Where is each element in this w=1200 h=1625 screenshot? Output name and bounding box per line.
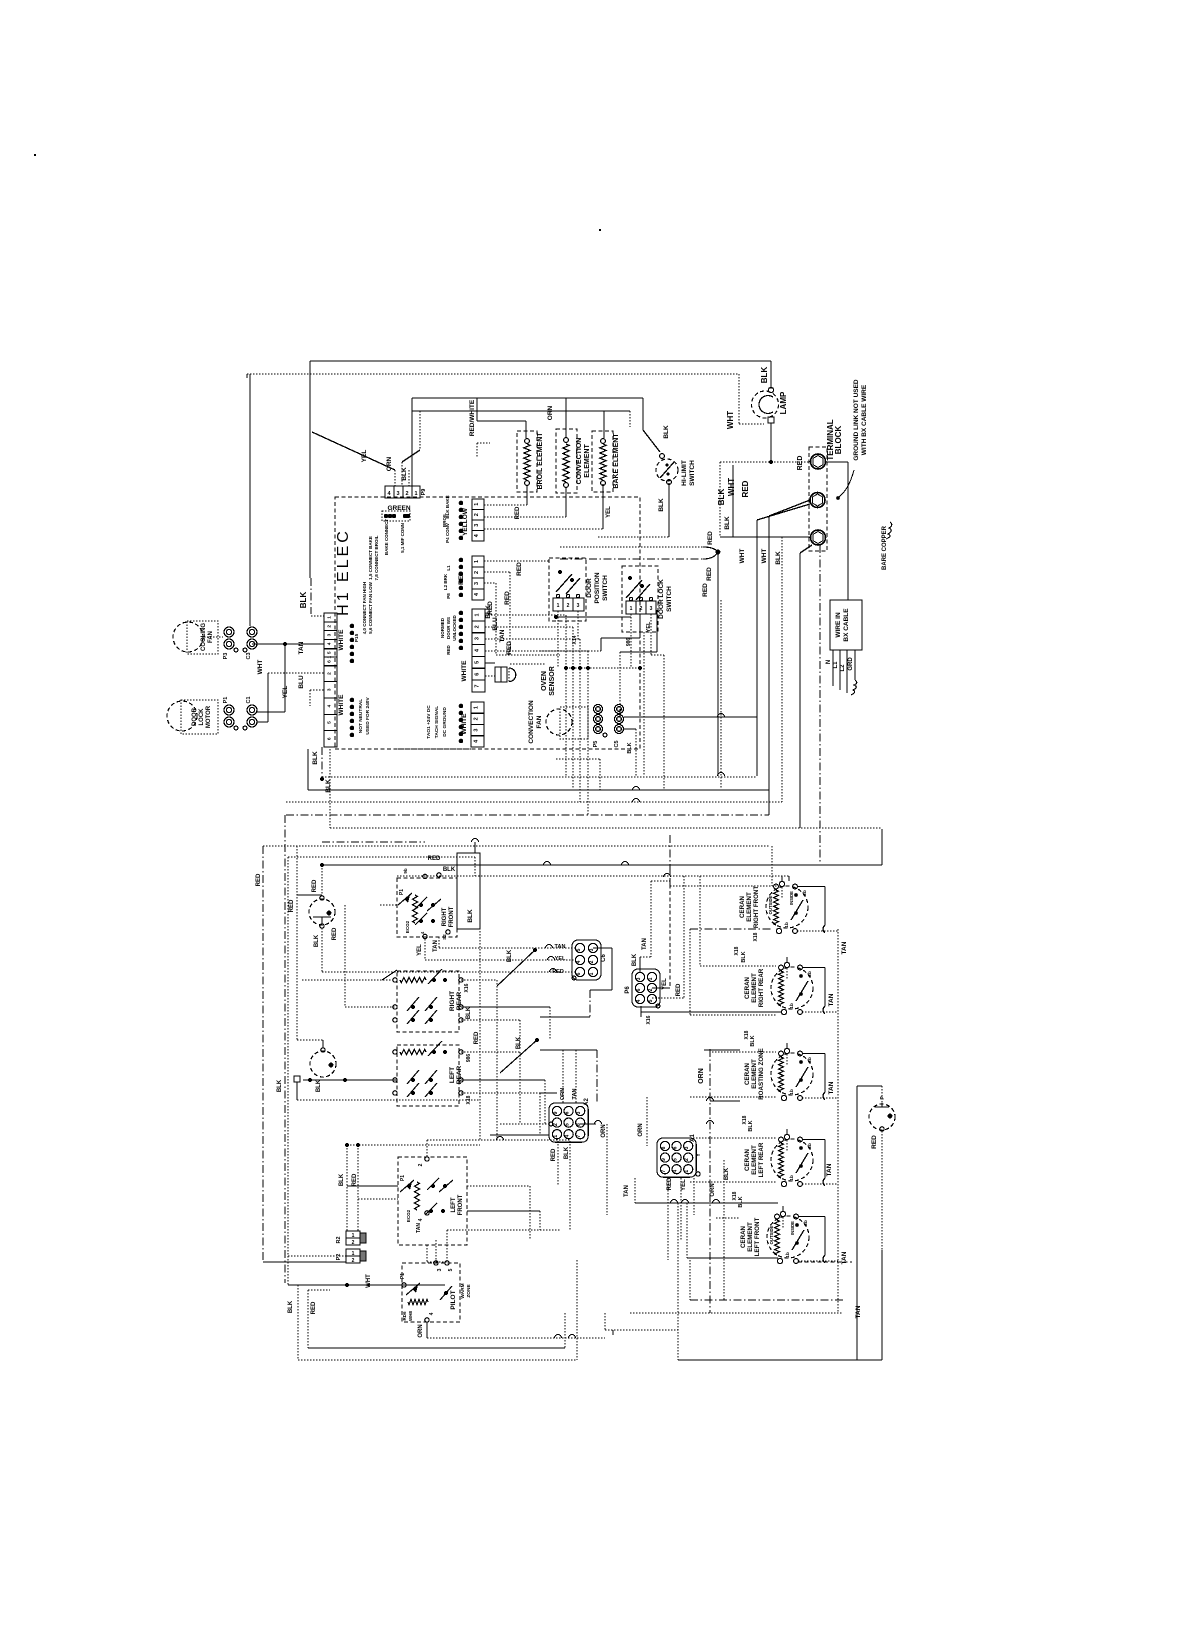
- svg-text:1: 1: [589, 972, 595, 975]
- svg-text:NORMED: NORMED: [440, 617, 445, 638]
- svg-text:3: 3: [437, 1268, 443, 1271]
- svg-text:L2 BRK: L2 BRK: [443, 573, 448, 590]
- svg-text:SENSOR: SENSOR: [549, 666, 556, 696]
- svg-text:BLK: BLK: [760, 367, 769, 384]
- svg-text:ORN: ORN: [601, 1124, 607, 1137]
- svg-text:TAN: TAN: [499, 629, 506, 642]
- wire WHT riser: [739, 520, 757, 776]
- svg-text:DC GROUND: DC GROUND: [442, 707, 448, 737]
- wire BLK riser: [775, 537, 782, 802]
- A1 top wire: [638, 1097, 702, 1176]
- svg-text:3: 3: [474, 582, 480, 585]
- cooling fan motor: [173, 621, 223, 654]
- svg-text:RED: RED: [552, 969, 564, 975]
- connector A1: [657, 1134, 696, 1178]
- svg-text:4: 4: [429, 1312, 435, 1315]
- svg-text:RED: RED: [741, 480, 750, 497]
- wire RED/WHITE element rail: [412, 398, 643, 436]
- svg-text:2: 2: [475, 625, 481, 628]
- wire right edge bus: [856, 1086, 858, 1360]
- svg-text:5: 5: [648, 999, 654, 1002]
- svg-text:6: 6: [327, 737, 333, 740]
- label TAN bottom: [855, 1305, 862, 1318]
- svg-text:WHT: WHT: [366, 1274, 372, 1288]
- svg-text:7: 7: [576, 1135, 582, 1138]
- svg-text:R2: R2: [336, 1236, 342, 1243]
- svg-text:RED: RED: [352, 1173, 358, 1186]
- convection fan: [528, 700, 588, 744]
- infinite switch RIGHT REAR: [393, 969, 463, 1032]
- svg-text:INSIDE: INSIDE: [789, 891, 794, 905]
- svg-text:RED: RED: [428, 856, 441, 862]
- svg-text:TAN: TAN: [828, 993, 835, 1006]
- svg-text:N: N: [826, 660, 832, 664]
- wire rail 3: [286, 799, 782, 802]
- svg-text:3: 3: [577, 603, 580, 609]
- door lock motor: [167, 700, 218, 734]
- wire right front feed: [771, 846, 773, 886]
- svg-text:BLK: BLK: [443, 867, 456, 873]
- svg-text:5: 5: [448, 1268, 454, 1271]
- svg-text:1b: 1b: [784, 922, 790, 928]
- svg-text:5,6 CONNECT FAN LOW: 5,6 CONNECT FAN LOW: [368, 581, 373, 634]
- wire RED bus b: [560, 559, 709, 597]
- svg-text:S2: S2: [442, 934, 447, 940]
- svg-text:P1: P1: [400, 1175, 406, 1181]
- svg-text:1: 1: [630, 606, 633, 612]
- svg-text:FAN: FAN: [536, 715, 543, 728]
- svg-text:YEL: YEL: [282, 686, 289, 699]
- broil element: [515, 431, 544, 519]
- svg-text:BLK: BLK: [339, 1173, 345, 1186]
- svg-text:TAN: TAN: [298, 641, 305, 654]
- wire LR H1: [461, 1080, 545, 1124]
- svg-text:NOT NEUTRAL: NOT NEUTRAL: [358, 699, 364, 733]
- wire left bus: [284, 815, 286, 1283]
- wire BLK pilot B: [277, 1076, 397, 1092]
- svg-text:BLK: BLK: [312, 751, 319, 765]
- svg-text:1: 1: [557, 603, 560, 609]
- svg-text:ORN: ORN: [710, 1183, 716, 1196]
- svg-text:7: 7: [661, 1170, 667, 1173]
- wire BLK to connector P3: [299, 361, 324, 616]
- svg-text:4,0 CONNECT FAN HIGH: 4,0 CONNECT FAN HIGH: [362, 582, 367, 635]
- svg-text:TAN: TAN: [828, 1081, 835, 1094]
- svg-text:ZONE: ZONE: [466, 1284, 472, 1298]
- wire rail 9 main: [322, 862, 882, 865]
- svg-text:P4 CONV: P4 CONV: [445, 523, 450, 543]
- svg-text:P3: P3: [223, 653, 229, 660]
- wire E1 bottom: [690, 929, 772, 1015]
- pilot lamp B: [297, 846, 336, 1077]
- svg-text:2: 2: [648, 988, 654, 991]
- wire TAN A1: [624, 1178, 778, 1203]
- heating element left front: [740, 1206, 838, 1264]
- wire bottom rail B: [298, 1260, 577, 1360]
- svg-text:INSIDE: INSIDE: [790, 1221, 795, 1235]
- heating element right rear: [744, 957, 838, 1015]
- svg-text:P8: P8: [446, 593, 451, 599]
- door lock switch: [622, 566, 673, 632]
- svg-text:ECO2: ECO2: [405, 920, 410, 933]
- svg-text:RED: RED: [667, 1177, 673, 1190]
- svg-text:4: 4: [636, 999, 642, 1002]
- wire YEL green-1: [312, 432, 395, 486]
- svg-text:3: 3: [684, 1146, 690, 1149]
- wire TAN RF to C6: [433, 937, 575, 952]
- wire BLK w1: [485, 605, 566, 776]
- wire BLK down-left: [288, 1285, 298, 1360]
- svg-text:DOOR: DOOR: [192, 707, 198, 726]
- svg-text:ORN: ORN: [638, 1123, 644, 1136]
- svg-text:6: 6: [565, 1111, 571, 1114]
- svg-text:REAR: REAR: [456, 1065, 463, 1084]
- svg-text:C1: C1: [246, 696, 252, 703]
- svg-text:RIGHT REAR: RIGHT REAR: [758, 968, 765, 1007]
- svg-text:SWITCH: SWITCH: [666, 586, 673, 612]
- svg-text:RED: RED: [516, 562, 523, 576]
- svg-text:BLK: BLK: [632, 953, 638, 966]
- svg-text:BLK: BLK: [277, 1079, 283, 1092]
- svg-text:L2: L2: [840, 664, 846, 672]
- svg-text:3: 3: [327, 633, 333, 636]
- svg-text:5: 5: [475, 661, 481, 664]
- svg-text:BLK: BLK: [738, 1196, 744, 1207]
- svg-text:RED: RED: [707, 531, 714, 545]
- wire rail 1: [322, 776, 757, 778]
- svg-text:P2: P2: [336, 1254, 342, 1261]
- wire E4 out: [690, 1163, 833, 1182]
- svg-text:WHT: WHT: [726, 411, 735, 429]
- wire WHT rail to lamp: [247, 374, 764, 429]
- svg-text:1: 1: [553, 1135, 559, 1138]
- A2 left wires: [490, 1093, 557, 1135]
- svg-text:RED: RED: [706, 567, 713, 581]
- wire RED to C6: [322, 927, 575, 972]
- svg-text:TAN: TAN: [841, 1251, 848, 1264]
- infinite switch LEFT FRONT: [398, 1157, 467, 1245]
- svg-text:BLU: BLU: [492, 617, 499, 631]
- wire E2 top: [700, 876, 776, 966]
- A2 right wire: [580, 1121, 607, 1215]
- wire TAN w3: [485, 629, 580, 802]
- svg-text:FRONT: FRONT: [458, 1194, 464, 1215]
- wire riser to board: [411, 398, 413, 497]
- svg-text:RED: RED: [506, 641, 513, 655]
- ground link note: [836, 379, 868, 500]
- svg-text:RIGHT: RIGHT: [449, 991, 456, 1011]
- svg-text:RED: RED: [504, 591, 511, 605]
- svg-text:BLK: BLK: [516, 1036, 522, 1049]
- svg-text:6: 6: [327, 660, 333, 663]
- svg-text:BLK: BLK: [658, 498, 665, 512]
- wire BLK diagonal 2: [500, 1036, 539, 1073]
- wire red/white stub: [477, 443, 490, 457]
- svg-text:YEL: YEL: [361, 450, 368, 463]
- svg-text:2: 2: [474, 513, 480, 516]
- svg-text:A2: A2: [584, 1098, 590, 1106]
- svg-text:3: 3: [589, 948, 595, 951]
- svg-text:3: 3: [474, 729, 480, 732]
- svg-text:BLK: BLK: [741, 951, 747, 962]
- svg-text:ROASTING ZONE: ROASTING ZONE: [758, 1048, 765, 1100]
- wire BLK hi-limit down: [598, 483, 669, 537]
- svg-text:1: 1: [352, 1233, 355, 1239]
- wire E3 out: [690, 1096, 776, 1098]
- svg-text:HI-LIMIT: HI-LIMIT: [681, 460, 688, 486]
- svg-text:TAN: TAN: [841, 941, 848, 954]
- connector P3/C3 rings: [223, 627, 257, 660]
- wire door lock riser: [572, 632, 644, 776]
- svg-text:1: 1: [414, 491, 417, 497]
- svg-text:RIGHT: RIGHT: [442, 907, 448, 926]
- svg-text:CERAN: CERAN: [744, 1062, 751, 1085]
- wire YEL A1 down: [681, 1178, 687, 1240]
- svg-text:P5: P5: [593, 741, 599, 748]
- P3 pads: [350, 581, 373, 663]
- junction row: [564, 666, 642, 670]
- wires horizontal mid: [704, 1050, 740, 1101]
- svg-text:2: 2: [352, 1258, 355, 1264]
- wire ORN pilot bottom: [418, 1322, 605, 1338]
- svg-text:BLK: BLK: [316, 1079, 322, 1092]
- svg-text:ORN: ORN: [547, 405, 554, 420]
- bake element: [592, 431, 620, 518]
- connector P5/C5 rings: [593, 705, 633, 754]
- wire TAN C3 to P3conn: [252, 641, 324, 654]
- svg-text:8: 8: [661, 1146, 667, 1149]
- svg-text:BLK: BLK: [750, 1035, 756, 1046]
- svg-text:2: 2: [589, 960, 595, 963]
- svg-text:2b: 2b: [807, 1143, 813, 1149]
- svg-text:986: 986: [466, 1054, 472, 1063]
- wire X16: [461, 980, 497, 1140]
- svg-text:P1: P1: [400, 1273, 406, 1279]
- svg-text:4: 4: [327, 642, 333, 645]
- connector P6: [625, 969, 660, 1007]
- svg-text:LEFT: LEFT: [451, 1197, 457, 1212]
- svg-text:BROIL ELEMENT: BROIL ELEMENT: [537, 432, 544, 490]
- svg-text:X18: X18: [753, 932, 759, 941]
- svg-text:TACH SIGNAL: TACH SIGNAL: [434, 706, 440, 738]
- svg-text:H1 ELEC: H1 ELEC: [335, 528, 352, 616]
- wire stub: [246, 374, 248, 378]
- svg-text:YEL: YEL: [606, 506, 612, 518]
- svg-text:BLK: BLK: [724, 1167, 730, 1180]
- svg-text:3: 3: [396, 491, 399, 497]
- svg-text:1: 1: [327, 656, 333, 659]
- wire door lock down: [540, 610, 664, 790]
- oven sensor: [485, 663, 556, 696]
- svg-text:X18: X18: [734, 946, 740, 955]
- connector P2 WHITE 6: [324, 649, 345, 747]
- wire BLK riser mid: [724, 465, 733, 537]
- svg-text:BLU: BLU: [298, 675, 305, 689]
- red connector pads: [443, 558, 463, 599]
- svg-text:CERAN: CERAN: [739, 895, 746, 918]
- svg-text:4: 4: [327, 705, 333, 708]
- connector GREEN: [385, 486, 420, 512]
- svg-text:2b: 2b: [802, 890, 808, 896]
- svg-text:1: 1: [475, 613, 481, 616]
- wire to hi-limit: [643, 398, 660, 452]
- junction node: [703, 547, 720, 559]
- connector P9 pads: [368, 489, 427, 581]
- wire bake to yellow connector: [484, 484, 603, 529]
- svg-text:CONVECTION: CONVECTION: [528, 700, 535, 744]
- svg-text:RED: RED: [332, 927, 338, 940]
- svg-text:RED/WHITE: RED/WHITE: [469, 399, 476, 436]
- svg-text:GROUND LINK NOT USED: GROUND LINK NOT USED: [853, 379, 860, 461]
- wire X18: [461, 1093, 540, 1135]
- svg-text:WHITE: WHITE: [338, 629, 345, 651]
- terminal bolt 1: [797, 454, 826, 470]
- svg-text:2b: 2b: [803, 1220, 809, 1226]
- svg-text:L1: L1: [833, 661, 839, 669]
- svg-text:YEL: YEL: [417, 944, 423, 956]
- wire E5 bottom: [687, 1251, 852, 1264]
- svg-text:CERAN: CERAN: [744, 1148, 751, 1171]
- C6 labels: [552, 944, 576, 980]
- svg-text:BLK: BLK: [564, 1146, 570, 1159]
- svg-text:2: 2: [553, 1123, 559, 1126]
- infinite switch LEFT REAR: [393, 1041, 463, 1106]
- wire RED w4: [485, 641, 588, 815]
- svg-text:2: 2: [405, 491, 408, 497]
- svg-text:BLK: BLK: [748, 1120, 754, 1131]
- wire pilot B down: [297, 1082, 480, 1100]
- svg-text:BLK: BLK: [724, 516, 731, 530]
- wire bottom right box: [678, 1203, 882, 1360]
- svg-text:OVEN: OVEN: [541, 671, 548, 691]
- svg-text:5,1 MIF CONN: 5,1 MIF CONN: [400, 523, 405, 553]
- svg-text:P9: P9: [421, 489, 427, 496]
- svg-text:2: 2: [418, 1163, 424, 1166]
- svg-text:YEL: YEL: [681, 1179, 687, 1191]
- svg-text:RED: RED: [256, 873, 262, 886]
- svg-text:5: 5: [565, 1123, 571, 1126]
- svg-text:1b: 1b: [789, 1089, 795, 1095]
- wire 986: [461, 1052, 520, 1124]
- wire ORN green-2: [386, 411, 420, 486]
- svg-text:1b: 1b: [789, 1175, 795, 1181]
- connector P1/C1 rings: [223, 696, 257, 730]
- wire LF out2: [467, 1211, 540, 1230]
- svg-text:C3: C3: [246, 652, 252, 659]
- svg-text:1: 1: [474, 706, 480, 709]
- svg-text:ORN: ORN: [418, 1324, 424, 1337]
- wire bottom rail A: [308, 1313, 565, 1348]
- svg-text:3: 3: [636, 977, 642, 980]
- wire rail 1300: [690, 1260, 843, 1300]
- svg-text:P1: P1: [399, 889, 405, 895]
- svg-text:TAN: TAN: [555, 944, 566, 950]
- svg-text:C6: C6: [601, 954, 607, 962]
- wire C6 loop: [540, 948, 612, 1017]
- svg-text:2b: 2b: [807, 971, 813, 977]
- terminal bolt 3: [811, 530, 826, 545]
- wire bake top: [604, 411, 630, 438]
- wire E3 top: [712, 1030, 776, 1052]
- svg-text:ELEMENT: ELEMENT: [747, 1222, 754, 1252]
- pilot lamp A: [289, 863, 335, 947]
- svg-text:BLK: BLK: [401, 467, 408, 481]
- wire rail 2: [308, 749, 769, 790]
- svg-text:BAKE ELEMENT: BAKE ELEMENT: [613, 433, 620, 489]
- heating element roasting zone: [744, 1043, 838, 1101]
- svg-text:BLK: BLK: [466, 1006, 472, 1019]
- wire RED to door position switch: [484, 561, 549, 576]
- connector P3 WHITE 6: [324, 613, 345, 666]
- svg-text:BLK: BLK: [775, 551, 782, 565]
- connector YELLOW: [462, 499, 484, 541]
- svg-text:4: 4: [673, 1170, 679, 1173]
- wire chain right of elements: [837, 929, 839, 1313]
- svg-text:BLK: BLK: [467, 909, 474, 923]
- wire BLU w2: [485, 617, 573, 789]
- svg-text:1,5 CONNECT BAKE: 1,5 CONNECT BAKE: [368, 536, 373, 580]
- wire RR out: [461, 1020, 520, 1050]
- wire rail 4: [286, 814, 769, 816]
- wire E1 feed: [670, 835, 777, 886]
- svg-text:POSITION: POSITION: [594, 572, 601, 603]
- svg-text:P1: P1: [223, 697, 229, 704]
- wire E2 out: [690, 1015, 835, 1094]
- wire rail 6: [881, 829, 883, 865]
- svg-text:ORN: ORN: [698, 1068, 705, 1084]
- svg-text:TAN: TAN: [624, 1185, 630, 1197]
- svg-text:BLOCK: BLOCK: [834, 426, 843, 455]
- svg-text:RED: RED: [289, 899, 295, 912]
- connector WHITE 7: [461, 609, 485, 692]
- wire rail 10: [397, 857, 789, 881]
- svg-text:2: 2: [640, 606, 643, 612]
- svg-text:RED: RED: [551, 1148, 557, 1161]
- svg-text:2: 2: [474, 571, 480, 574]
- wire WHT junction: [288, 1274, 445, 1288]
- svg-text:ECO2: ECO2: [406, 1209, 411, 1222]
- wire WHT RED from terminal block: [727, 478, 810, 520]
- wire RED riser b: [484, 583, 496, 655]
- svg-text:WHITE: WHITE: [461, 713, 468, 735]
- svg-text:6: 6: [475, 673, 481, 676]
- wire E1 out TAN: [828, 941, 848, 1006]
- svg-text:986: 986: [626, 638, 632, 647]
- svg-text:RED: RED: [676, 983, 682, 996]
- svg-text:DOOR WS: DOOR WS: [446, 617, 451, 639]
- svg-text:LAMP: LAMP: [779, 391, 788, 414]
- wire convection to yellow connector: [484, 487, 566, 517]
- wire ORN element rail: [412, 405, 630, 420]
- svg-text:WHT: WHT: [257, 660, 264, 675]
- svg-text:YEL: YEL: [662, 978, 668, 990]
- svg-text:5: 5: [576, 948, 582, 951]
- wire TAN BLK to P6: [632, 881, 670, 972]
- supply leads N L1 L2 GND: [826, 650, 857, 695]
- wire ORN long: [698, 1049, 716, 1313]
- svg-text:LEFT REAR: LEFT REAR: [758, 1142, 765, 1177]
- svg-text:BLK: BLK: [507, 949, 513, 962]
- wire rail 1330: [605, 1313, 678, 1335]
- svg-text:1b: 1b: [789, 1003, 795, 1009]
- svg-text:2: 2: [474, 717, 480, 720]
- svg-text:BLK: BLK: [314, 934, 320, 947]
- svg-text:WH8: WH8: [408, 1311, 413, 1321]
- svg-text:BLK: BLK: [485, 605, 492, 619]
- svg-text:CONVECTION: CONVECTION: [576, 438, 583, 485]
- svg-text:1b: 1b: [785, 1252, 791, 1258]
- wire LF top feed: [427, 1137, 570, 1158]
